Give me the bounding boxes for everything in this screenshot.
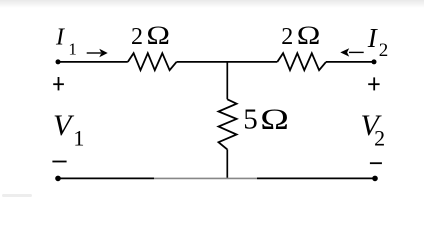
- label 5 ohm: [243, 103, 289, 136]
- label 2 ohm left: [131, 21, 170, 50]
- wire top-left segment: [58, 61, 128, 63]
- svg-text:Ω: Ω: [297, 21, 321, 50]
- node terminal dot top-left: [56, 59, 61, 64]
- current arrow I2 (left-pointing): [340, 48, 363, 56]
- label V2: [361, 109, 386, 151]
- resistor R3 (5 ohm, shunt): [219, 99, 237, 149]
- label I1: [55, 25, 77, 59]
- svg-text:Ω: Ω: [146, 21, 170, 50]
- node terminal dot bottom-right: [372, 176, 378, 182]
- plus sign left: [53, 77, 64, 90]
- svg-text:2: 2: [379, 40, 389, 61]
- resistor R2 (2 ohm, right series): [277, 53, 326, 70]
- wire top-middle segment: [177, 61, 278, 63]
- wire mid vertical lower: [226, 149, 228, 178]
- node terminal dot bottom-left: [55, 176, 61, 182]
- svg-text:5: 5: [243, 104, 258, 136]
- svg-text:Ω: Ω: [260, 103, 289, 136]
- wire bottom left segment: [58, 177, 154, 179]
- resistor R1 (2 ohm, left series): [128, 53, 177, 70]
- label I2: [367, 23, 389, 61]
- node terminal dot top-right: [372, 59, 377, 64]
- svg-text:I: I: [55, 25, 65, 51]
- wire bottom right segment: [257, 177, 375, 179]
- svg-text:2: 2: [374, 126, 385, 151]
- svg-text:1: 1: [68, 39, 77, 58]
- minus sign left: [52, 161, 66, 163]
- wire mid vertical upper: [226, 62, 228, 99]
- svg-text:1: 1: [73, 126, 84, 151]
- wire top-right segment: [326, 61, 374, 63]
- svg-text:2: 2: [131, 24, 143, 50]
- label V1: [53, 109, 84, 151]
- svg-text:I: I: [367, 23, 379, 53]
- plus sign right: [368, 77, 379, 90]
- minus sign right: [370, 162, 382, 164]
- svg-text:V: V: [53, 109, 75, 142]
- current arrow I1 (right-pointing): [87, 49, 108, 57]
- wire bottom middle segment: [154, 177, 257, 179]
- label 2 ohm right: [281, 21, 320, 50]
- svg-text:2: 2: [281, 24, 293, 50]
